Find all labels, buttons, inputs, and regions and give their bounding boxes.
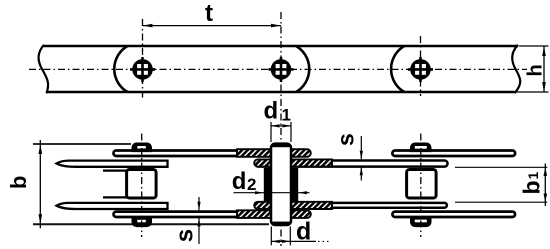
right break line <box>512 45 520 93</box>
dimension t: right arrow <box>271 24 281 28</box>
dimension d: line with arrows <box>271 240 316 242</box>
pin 3 top cap <box>411 143 432 152</box>
roller at pin 3 <box>407 170 437 199</box>
outer plate bottom (link pins3-4), hatched <box>392 212 515 217</box>
pin 2 centerline (continues to bottom view) <box>280 12 282 246</box>
svg-text:b: b <box>6 176 31 189</box>
dimension d1: extension lines <box>270 122 272 142</box>
dimension b: top extension line <box>33 143 131 145</box>
svg-text:d: d <box>296 218 311 246</box>
bushing wall left (pin 2 section) <box>264 168 271 202</box>
svg-text:b: b <box>519 180 545 194</box>
svg-text:t: t <box>205 0 213 27</box>
wire: chain strip top edge <box>44 45 518 48</box>
svg-text:1: 1 <box>282 106 291 125</box>
dimension h: bottom extension line <box>515 91 549 93</box>
dimension t: line <box>143 25 282 27</box>
dimension s (top): line and arrows <box>360 136 362 159</box>
horizontal centerline of chain <box>29 68 527 70</box>
bushing wall right (pin 2 section) <box>292 168 299 202</box>
plate end arc at pin 3 <box>391 46 404 92</box>
pin 1 centerline <box>142 19 144 98</box>
inner plate bottom (link pins2-3), hatched <box>256 203 447 208</box>
pin 3 centerline (bottom view) <box>420 134 422 238</box>
inner plate bottom (broken link at left), white with taper <box>57 203 168 209</box>
svg-text:s: s <box>171 229 198 242</box>
dimension b: bottom extension line <box>33 223 269 225</box>
pin 2 body (full pin) <box>271 144 291 225</box>
outer plate bottom (link pins1-2), hatched <box>114 212 310 217</box>
dimension s (bottom): line and arrows <box>198 197 200 210</box>
pin 1 top cap <box>132 143 152 152</box>
pin 1 centerline (bottom view) <box>141 134 143 238</box>
dimension h: vertical line with arrows <box>543 46 545 92</box>
dimension d2: leader line <box>234 192 310 194</box>
dimension b1: top extension line <box>455 166 547 168</box>
pin 3 bottom cap <box>411 218 432 227</box>
inner plate top (link pins2-3), hatched <box>255 161 447 167</box>
outer plate top (link pins3-4), hatched <box>392 151 515 157</box>
plate end arc at pin 1 <box>114 46 127 92</box>
outer plate top (link pins1-2), hatched <box>113 151 309 157</box>
bushing tab left of roller 1 (bottom) <box>103 196 127 198</box>
pin 2 (circle with center mark) <box>269 57 294 82</box>
svg-text:2: 2 <box>247 175 256 194</box>
svg-text:d: d <box>264 97 279 124</box>
pin 1 (circle with center mark) <box>130 57 155 82</box>
dimension t: left arrow <box>143 24 153 28</box>
dimension d1: line with arrows <box>271 125 291 127</box>
plate end arc at pin 2 <box>296 46 309 92</box>
dimension b1: bottom extension line <box>455 201 547 203</box>
svg-text:d: d <box>232 168 247 195</box>
svg-text:s: s <box>332 133 358 146</box>
svg-text:h: h <box>525 64 547 76</box>
pin 3 centerline <box>420 36 422 96</box>
inner plate top (broken link at left), white with taper <box>57 161 168 167</box>
wire: chain strip bottom edge <box>47 91 515 94</box>
svg-text:1: 1 <box>525 172 541 180</box>
pin 3 (circle with center mark) <box>408 57 433 82</box>
roller at pin 1 <box>127 170 157 199</box>
dimension b1: vertical line with arrows <box>544 164 546 207</box>
left break line <box>39 45 49 93</box>
bushing tab left of roller 1 (top) <box>103 170 127 172</box>
dimension h: top extension line <box>519 45 549 47</box>
dimension d: extension lines <box>270 227 272 246</box>
dimension b: vertical line with arrows <box>39 140 41 228</box>
pin 1 bottom cap <box>132 218 152 227</box>
